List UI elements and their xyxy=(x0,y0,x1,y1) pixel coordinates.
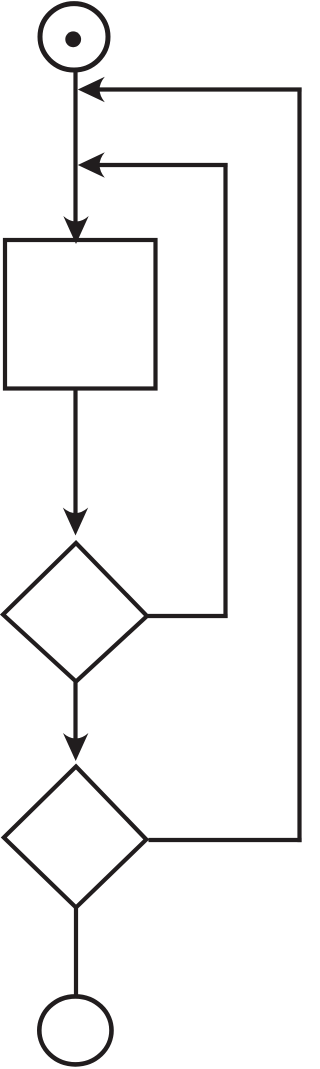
outer loop arrowhead into main wire xyxy=(78,77,105,102)
outer loop top horizontal wire xyxy=(99,87,302,91)
start node (initial state circle) xyxy=(40,4,108,70)
process rectangle xyxy=(5,240,156,389)
arrowhead into rectangle xyxy=(63,216,88,244)
inner loop arrowhead into main wire xyxy=(78,152,105,177)
inner loop vertical wire xyxy=(223,163,227,618)
arrowhead into diamond2 xyxy=(63,733,88,761)
wire diamond2-to-end vertical xyxy=(74,906,78,997)
decision diamond2 xyxy=(4,767,147,908)
decision diamond1 xyxy=(3,543,147,682)
arrowhead into diamond1 xyxy=(63,508,88,536)
wire rectangle-to-diamond1 vertical xyxy=(73,389,77,514)
end node circle xyxy=(39,996,111,1064)
start node inner dot xyxy=(65,31,81,47)
wire diamond1-to-diamond2 vertical xyxy=(73,682,77,739)
inner loop bottom horizontal wire from diamond1 xyxy=(148,614,228,618)
outer loop bottom horizontal wire from diamond2 xyxy=(149,838,302,842)
outer loop vertical wire xyxy=(297,88,301,843)
inner loop top horizontal wire xyxy=(99,163,228,167)
wire start-to-rectangle vertical xyxy=(73,70,77,222)
